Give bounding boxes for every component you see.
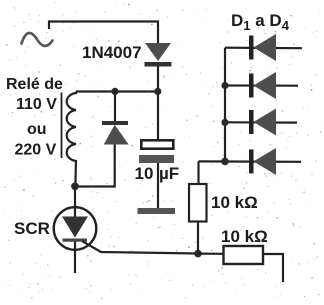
svg-text:1N4007: 1N4007 <box>82 43 142 62</box>
svg-text:ou: ou <box>27 121 47 138</box>
svg-text:SCR: SCR <box>14 219 50 238</box>
svg-text:10: 10 <box>135 164 154 183</box>
svg-text:µF: µF <box>159 164 179 183</box>
svg-text:220 V: 220 V <box>15 142 57 159</box>
svg-text:10 kΩ: 10 kΩ <box>211 193 258 212</box>
svg-text:10 kΩ: 10 kΩ <box>221 227 268 246</box>
svg-text:110 V: 110 V <box>16 96 57 113</box>
svg-text:D1 a D4: D1 a D4 <box>231 11 290 33</box>
svg-text:Relé de: Relé de <box>6 76 63 93</box>
